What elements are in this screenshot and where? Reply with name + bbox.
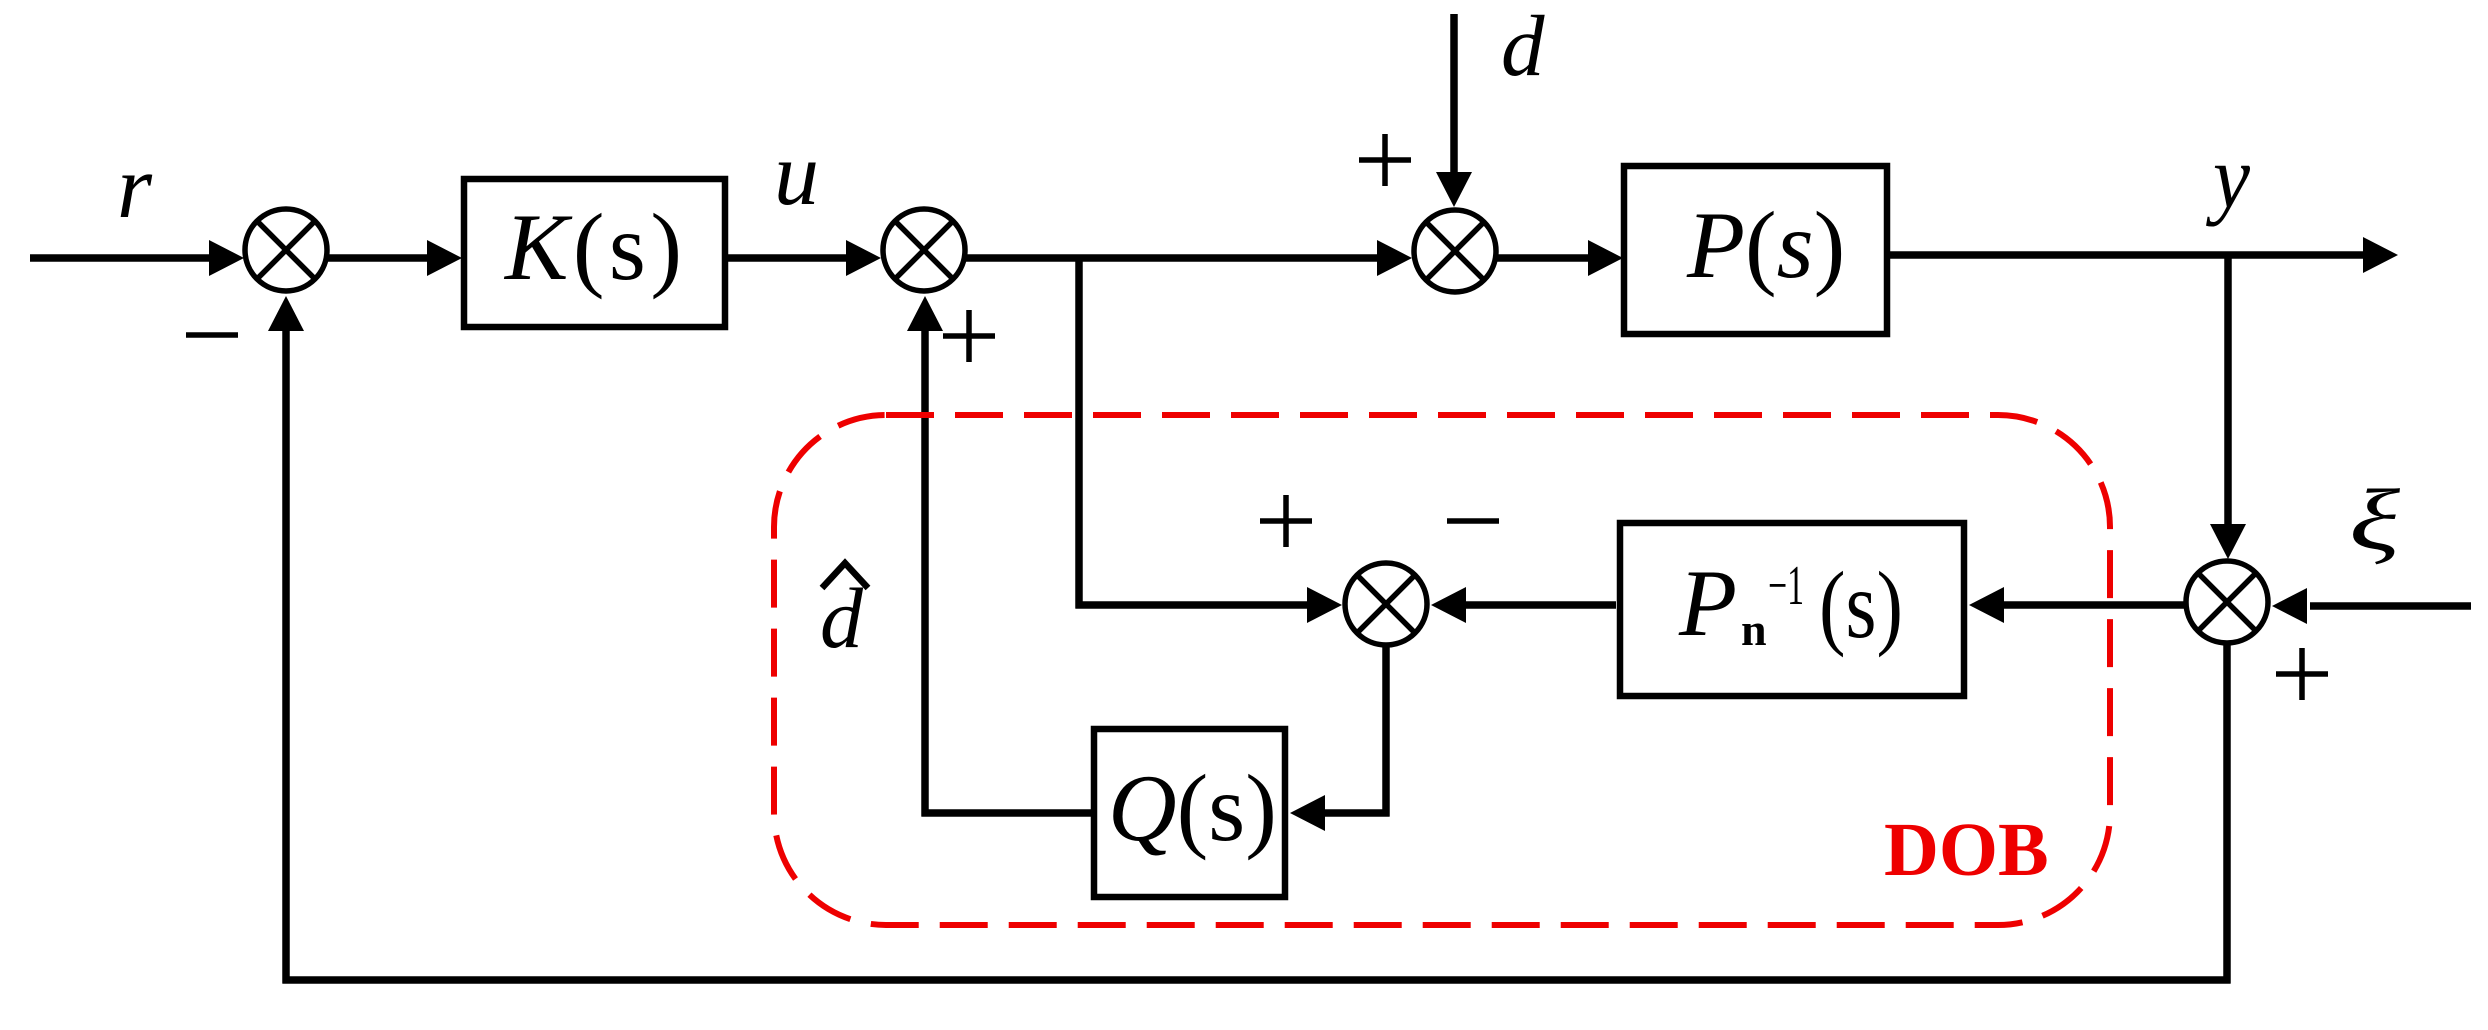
summing junction J3 (1414, 210, 1496, 292)
summing junction J4 (2186, 561, 2268, 643)
minus sign at J5 right input (1447, 518, 1499, 524)
summing junction J1 (245, 209, 327, 291)
wire J4 down to feedback (2223, 643, 2231, 984)
svg-text:y: y (2206, 128, 2250, 227)
wire Pn inverse to J5 (1464, 601, 1616, 609)
block P(s) (1624, 166, 1887, 334)
plus sign at J5 left input (1260, 518, 1312, 524)
wire J4 to Pn inverse (2003, 601, 2186, 609)
wire Q(s) to dhat up into J2 (922, 809, 1092, 817)
svg-text:d: d (1501, 0, 1545, 94)
wire J5 down to Q(s) (1382, 643, 1390, 817)
plus sign at J3 d input (1359, 157, 1411, 163)
svg-text:P: P (1678, 550, 1737, 656)
svg-text:K(s): K(s) (503, 194, 682, 300)
plus sign at J4 xi input (2276, 671, 2328, 677)
wire xi input (2310, 602, 2471, 610)
wire K(s) to J2 (728, 254, 849, 262)
block K(s) (464, 179, 725, 327)
wire feedback bottom (283, 976, 2231, 984)
block Pn^-1(s) (1620, 523, 1964, 696)
svg-text:n: n (1741, 604, 1767, 655)
DOB dashed boundary (774, 415, 2110, 925)
block Q(s) (1094, 729, 1285, 897)
svg-text:DOB: DOB (1884, 808, 2049, 892)
wire d input (1450, 14, 1458, 175)
wire feedback up into J1 (282, 329, 290, 984)
svg-text:P(s): P(s) (1686, 192, 1845, 298)
minus sign at J1 feedback input (186, 332, 238, 338)
wire y branch down to J4 (2224, 253, 2232, 527)
wire J1 to K(s) (328, 254, 430, 262)
summing junction J5 (1345, 563, 1427, 645)
plus sign at J2 dhat input (943, 333, 995, 339)
svg-text:ξ: ξ (2349, 471, 2401, 568)
svg-text:Q(s): Q(s) (1108, 755, 1277, 861)
svg-text:r: r (117, 138, 153, 237)
wire y output (1890, 251, 2366, 259)
wire r input (30, 254, 212, 262)
wire J3 to P(s) (1497, 254, 1591, 262)
node branch at x=1079 (1075, 258, 1083, 609)
wire J2 to J3 (966, 254, 1380, 262)
summing junction J2 (883, 209, 965, 291)
svg-text:u: u (774, 125, 819, 224)
svg-text:−1: −1 (1768, 555, 1804, 617)
svg-text:(s): (s) (1819, 552, 1903, 658)
wire branch to J5 (1076, 601, 1311, 609)
